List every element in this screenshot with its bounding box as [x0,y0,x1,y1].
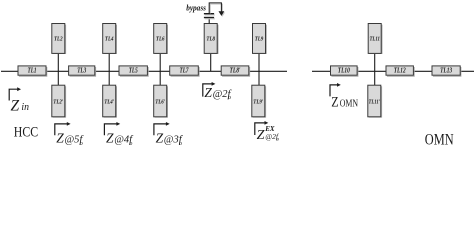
transmission line TL7 [170,66,199,76]
svg-text:o: o [80,141,83,146]
stub TL4 [103,24,117,54]
label Z@4f0 [106,131,134,147]
transmission line TL3 [69,66,96,76]
node Z@2f0 arrow [203,82,216,97]
svg-text:TL9′: TL9′ [253,100,263,106]
wire stub TL8 to bypass capacitor [208,18,210,23]
label Zin [11,97,30,114]
svg-text:OMN: OMN [425,131,454,146]
stub TL2 [52,24,66,54]
svg-text:TL6′: TL6′ [155,100,165,106]
svg-text:o: o [129,141,132,146]
wire junction 5 vertical [258,53,260,85]
svg-text:Z: Z [106,131,114,146]
label OMN [425,131,454,148]
node Zin arrow [9,87,21,100]
svg-text:TL9: TL9 [255,36,264,42]
capacitor bypass [204,14,215,19]
svg-text:TL3: TL3 [77,67,86,75]
wire capacitor to ground [209,3,222,14]
transmission line TL10 [331,66,358,76]
label HCC [14,125,38,141]
label Z@3f0 [156,131,184,147]
node Z@4f0 arrow [104,122,120,135]
svg-text:OMN: OMN [340,99,359,110]
svg-text:o: o [228,95,231,101]
transmission line TL8p [221,66,249,76]
svg-text:TL4′: TL4′ [104,100,114,106]
ground [219,11,226,17]
svg-text:TL11: TL11 [369,36,380,42]
wire OMN main line [312,70,474,72]
transmission line TL12 [386,66,414,76]
stub TL9p [252,85,266,117]
node Z@5f0 arrow [55,122,71,135]
svg-text:TL2′: TL2′ [53,100,63,106]
label ZEX@2f0 [257,125,280,143]
svg-text:TL8: TL8 [206,36,215,42]
svg-text:TL1: TL1 [28,67,37,75]
label ZOMN [331,95,358,111]
svg-text:in: in [21,101,29,113]
wire OMN junction vertical [374,53,376,85]
wire junction 3 vertical [159,53,161,85]
svg-text:Z: Z [11,97,20,114]
stub TL6 [154,24,168,54]
node ZEX@2f0 arrow [255,121,268,135]
transmission line TL5 [119,66,148,76]
svg-text:Z: Z [257,128,265,143]
svg-text:Z: Z [204,85,212,100]
svg-text:o: o [179,141,182,146]
svg-text:TL5: TL5 [129,67,138,75]
svg-text:TL7: TL7 [180,67,189,75]
svg-text:bypass: bypass [186,4,206,13]
wire junction 2 vertical [108,53,110,85]
label bypass [186,4,206,13]
svg-text:HCC: HCC [14,125,38,141]
svg-text:Z: Z [331,95,338,111]
svg-text:o: o [277,138,280,143]
wire HCC main line [1,70,287,72]
stub TL6p [154,85,168,117]
stub TL8 [204,24,218,54]
stub TL2p [52,85,66,117]
node ZOMN arrow [330,83,341,96]
stub TL11p [368,85,382,117]
svg-text:Z: Z [56,131,64,146]
stub TL4p [103,85,117,117]
label Z@5f0 [56,131,84,147]
stub TL9 [253,24,267,54]
svg-text:TL11′: TL11′ [369,100,381,106]
svg-text:TL13: TL13 [440,67,452,75]
node Z@3f0 arrow [154,122,170,135]
svg-text:Z: Z [156,131,164,146]
label Z@2f0 [204,85,232,101]
svg-text:TL2: TL2 [54,36,63,42]
svg-text:TL10: TL10 [338,67,350,75]
svg-text:TL6: TL6 [156,36,165,42]
wire junction 1 vertical [57,53,59,85]
svg-text:TL8′: TL8′ [230,67,241,75]
transmission line TL13 [432,66,461,76]
transmission line TL1 [18,66,47,76]
svg-text:TL12: TL12 [394,67,406,75]
svg-text:TL4: TL4 [105,36,114,42]
wire junction 4 vertical [210,53,212,71]
stub TL11 [368,24,382,54]
